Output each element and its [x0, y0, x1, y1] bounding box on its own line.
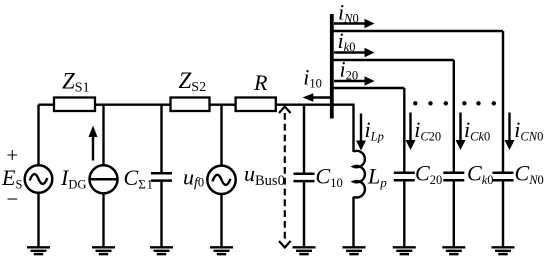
svg-text:Lp: Lp — [367, 164, 387, 190]
svg-text:C20: C20 — [415, 161, 442, 187]
svg-text:iCN0: iCN0 — [514, 117, 543, 143]
svg-text:i10: i10 — [303, 65, 322, 91]
svg-text:iCk0: iCk0 — [464, 117, 490, 143]
svg-text:Ck0: Ck0 — [467, 161, 494, 187]
svg-text:R: R — [253, 70, 268, 95]
svg-text:IDG: IDG — [60, 165, 86, 191]
svg-text:uBus0: uBus0 — [244, 161, 285, 189]
svg-text:+: + — [5, 143, 19, 167]
svg-text:iN0: iN0 — [338, 0, 359, 25]
svg-text:iC20: iC20 — [414, 117, 441, 143]
svg-text:CΣ1: CΣ1 — [124, 165, 154, 191]
svg-text:ZS2: ZS2 — [179, 68, 207, 95]
svg-text:−: − — [5, 187, 19, 211]
svg-text:uf0: uf0 — [183, 164, 204, 190]
svg-text:CN0: CN0 — [515, 161, 544, 187]
svg-text:iLp: iLp — [365, 117, 384, 143]
svg-text:ZS1: ZS1 — [62, 69, 90, 96]
svg-text:C10: C10 — [316, 164, 343, 190]
